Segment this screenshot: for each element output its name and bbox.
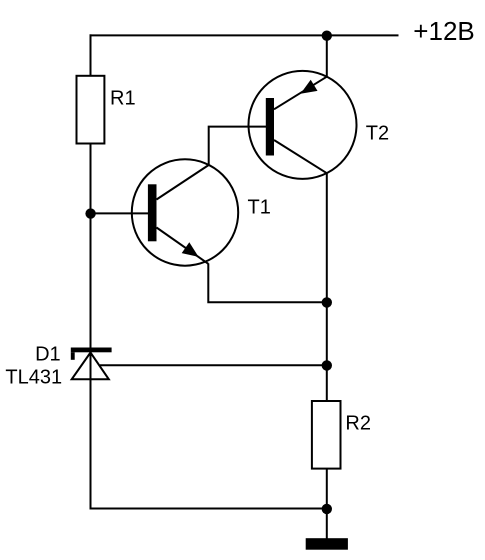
resistor R2 (312, 401, 341, 469)
svg-text:TL431: TL431 (5, 366, 62, 388)
svg-text:T1: T1 (248, 197, 271, 219)
ground (306, 538, 348, 550)
svg-text:+12В: +12В (413, 16, 474, 46)
transistor T2 (249, 71, 357, 179)
wire: bottom return to ground node (90, 508, 327, 510)
transistor T1 (132, 159, 238, 265)
node: ground junction (322, 504, 332, 514)
wire: +12V top rail (90, 34, 399, 36)
node A: R1/TL431/T1 base junction (85, 208, 95, 218)
wire: TL431 reference to output node (100, 364, 327, 366)
node: output junction (T1 emitter / T2 collector) (322, 297, 332, 307)
wire: R2 bottom to ground (326, 469, 328, 539)
node: reference junction (322, 360, 332, 370)
svg-text:D1: D1 (35, 343, 61, 365)
svg-text:R2: R2 (345, 413, 371, 435)
wire: T1 collector up to T2 base (209, 127, 266, 165)
diode D1 TL431 (71, 348, 112, 380)
wire: left vertical bus (90, 34, 92, 509)
svg-text:T2: T2 (366, 123, 389, 145)
node: rail junction (322, 31, 332, 41)
svg-text:R1: R1 (110, 88, 136, 110)
wire: T1 base lead from node A (91, 212, 149, 214)
resistor R1 (77, 76, 105, 144)
wire: T2 collector down through nodes to R2 (326, 173, 328, 400)
wire: T1 emitter down to output node (208, 263, 326, 302)
wire: T2 emitter to +12V rail (326, 34, 328, 77)
